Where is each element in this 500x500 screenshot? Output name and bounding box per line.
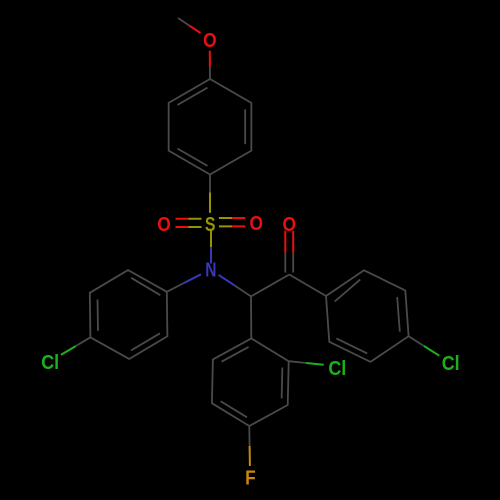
svg-text:Cl: Cl <box>41 352 59 374</box>
bottom ring inner line b1-b2 (right vertical) <box>281 368 284 399</box>
svg-text:O: O <box>250 213 263 236</box>
svg-text:S: S <box>205 212 216 235</box>
left ring (4-chlorophenyl on N) outer edges <box>90 270 168 359</box>
right ring (4-chlorophenyl) outer edges <box>326 270 409 362</box>
svg-text:N: N <box>205 259 216 282</box>
bond O-C4 of anisole ring, oxygen half <box>209 51 211 67</box>
svg-text:O: O <box>203 30 216 53</box>
bond C(=O)-C(aryl right) <box>289 275 326 297</box>
svg-text:Cl: Cl <box>442 353 460 375</box>
bond O-C4 of anisole ring, carbon half <box>209 67 211 79</box>
bond C-Cl left, chlorine half <box>61 346 76 355</box>
carbonyl C=O double bond, carbon halves <box>285 253 293 273</box>
bond C-F, fluorine half <box>249 446 251 466</box>
bond N-C(aryl left), nitrogen half <box>184 274 201 283</box>
svg-text:F: F <box>245 467 256 490</box>
bond C-F, carbon half <box>248 426 250 446</box>
top ring double bond inner line D-E <box>177 149 207 166</box>
right ring inner line w0-w1 <box>335 280 361 302</box>
carbonyl C=O double bond, oxygen halves <box>285 231 293 253</box>
bond N-C2, carbon half <box>235 286 251 297</box>
bond C-Cl middle, chlorine half <box>306 363 324 365</box>
bond C-Cl middle, carbon half <box>289 361 307 363</box>
bottom ring inner line b5-b0 (bottom-left) <box>221 401 247 417</box>
svg-text:O: O <box>157 214 170 237</box>
bottom ring inner line b3-b4 (top-left) <box>222 347 249 362</box>
bond N-C2, nitrogen half <box>219 275 235 286</box>
S=O right double bond <box>219 218 232 226</box>
bond N-C(aryl left), carbon half <box>167 283 184 292</box>
bond C-Cl left, carbon half <box>76 337 91 346</box>
svg-text:O: O <box>283 214 296 237</box>
bond C2-C3 (to bottom ring) <box>250 296 252 338</box>
bond CH3-O (methoxy), oxygen half <box>189 26 200 34</box>
bond S-N, nitrogen half <box>210 247 212 264</box>
bond CH3-O (methoxy), carbon half <box>178 18 189 26</box>
top ring double bond inner line F-A <box>177 88 207 105</box>
bottom ring (2-chloro-4-fluorophenyl) outer edges <box>212 338 289 426</box>
bond C1-S, carbon half <box>209 175 211 193</box>
S=O left double bond <box>176 219 189 227</box>
right ring inner line w2-w3 <box>397 297 400 332</box>
bond S-N, sulfur half <box>210 231 212 248</box>
top ring (4-methoxyphenyl) outer edges <box>169 79 252 175</box>
bond C1-S, sulfur half <box>209 193 211 213</box>
right ring inner line w4-w5 <box>336 338 367 353</box>
bond C2-C(=O), all carbon <box>251 275 289 297</box>
top ring double bond inner line B-C <box>244 109 246 144</box>
bond C-Cl right, chlorine half <box>424 346 439 356</box>
svg-text:Cl: Cl <box>328 358 346 380</box>
left ring inner line v1-v2 (bottom-right) <box>131 333 160 350</box>
bond C-Cl right, carbon half <box>409 336 424 346</box>
left ring inner line v5-v0 (top edge) <box>131 278 160 295</box>
left ring inner line v3-v4 (left vertical) <box>97 300 100 331</box>
